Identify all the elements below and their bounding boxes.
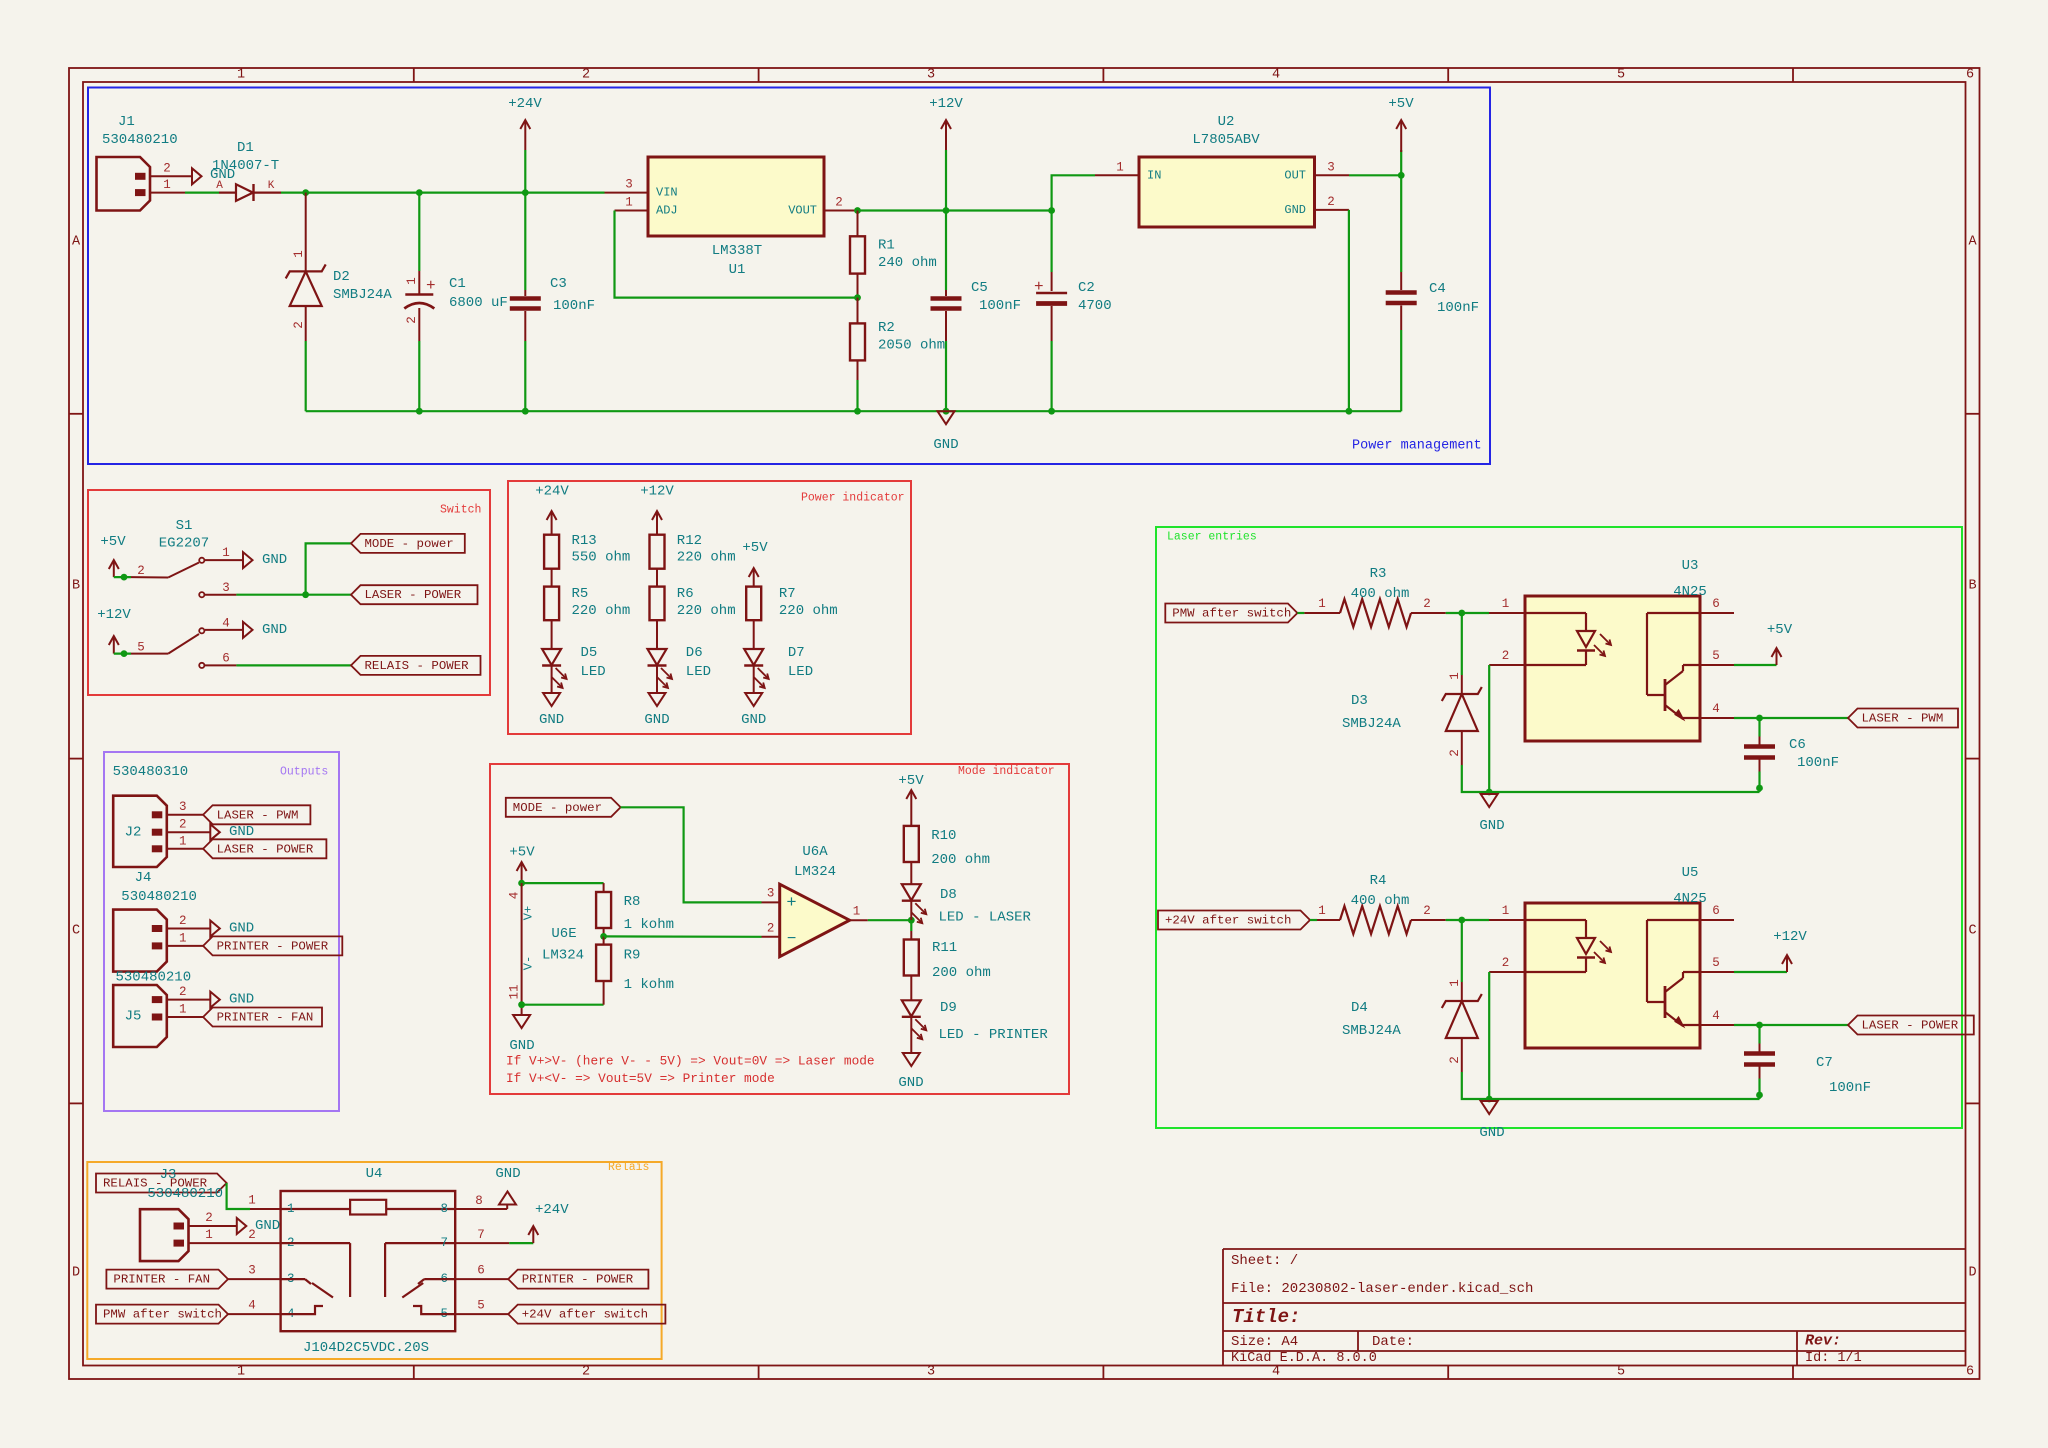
svg-text:R3: R3 [1370,566,1387,582]
svg-text:220 ohm: 220 ohm [677,603,736,619]
svg-text:4N25: 4N25 [1673,584,1707,600]
svg-text:1: 1 [1502,597,1510,611]
svg-text:U6E: U6E [551,926,576,942]
svg-text:SMBJ24A: SMBJ24A [1342,716,1401,732]
U4 pin 3 [228,1278,281,1280]
resistor R10 200 ohm [904,826,919,862]
hierarchical label PRINTER - POWER at U4 [508,1270,648,1289]
svg-text:4: 4 [1272,1365,1280,1380]
junction D8/R11 node [908,917,915,924]
svg-text:LED: LED [788,664,813,680]
capacitor C3 100nF [524,193,526,290]
svg-text:IN: IN [1147,168,1161,182]
svg-text:1 kohm: 1 kohm [624,977,674,993]
svg-text:PRINTER - POWER: PRINTER - POWER [217,939,329,953]
junction MODE/LASER [302,591,309,598]
svg-text:3: 3 [767,887,775,901]
svg-text:LASER - POWER: LASER - POWER [217,842,314,856]
svg-text:Outputs: Outputs [280,766,328,779]
GND label at J1 pin 2 [192,168,202,184]
GND label at U4 pin 8 [499,1192,516,1205]
J5 pin 1 wire [167,1016,203,1018]
svg-text:+12V: +12V [97,607,131,623]
svg-text:GND: GND [1479,818,1504,834]
connector J4 [113,910,167,972]
wire C7 to ground rail [1758,1079,1760,1100]
svg-text:8: 8 [475,1194,483,1208]
svg-text:7: 7 [440,1236,448,1250]
power symbol at R12 string [656,513,658,535]
U5 pin 4 [1700,1024,1734,1026]
junction at C6 top [1756,715,1763,722]
svg-text:6: 6 [1712,904,1720,918]
svg-text:L7805ABV: L7805ABV [1192,132,1260,148]
junction C7 at rail [1756,1092,1763,1099]
svg-text:S1: S1 [176,518,193,534]
junction at C2 / U2 input [1048,207,1055,214]
svg-text:2: 2 [1423,904,1431,918]
U2 pin 2 GND [1315,209,1349,211]
svg-text:1: 1 [1116,161,1124,175]
rail junction C3 [522,408,529,415]
hierarchical label PMW after switch input [96,1305,228,1324]
wire label to R4 [1310,919,1317,921]
capacitor C4 100nF [1400,175,1402,272]
resistor R8 1 kohm [603,883,605,892]
U4 pin 4 [228,1313,281,1315]
J2 pin 1 wire [167,848,203,850]
svg-text:R11: R11 [932,940,957,956]
laser entries section box [1156,527,1962,1128]
hierarchical label LASER - POWER [351,585,478,604]
connector J5 [113,985,167,1047]
svg-text:2: 2 [179,985,187,999]
svg-text:ADJ: ADJ [656,204,678,218]
S1 pole A lever [131,576,168,578]
outputs section box [104,752,339,1111]
junction at D4 top [1458,917,1465,924]
svg-text:J2: J2 [125,825,142,841]
junction at D3 top [1458,610,1465,617]
svg-text:U6A: U6A [802,844,828,860]
wire R9 bottom rail [522,1004,604,1006]
svg-text:SMBJ24A: SMBJ24A [1342,1023,1401,1039]
regulator U1 LM338T [648,157,824,236]
svg-text:PMW after switch: PMW after switch [1172,607,1291,621]
svg-text:200 ohm: 200 ohm [931,852,990,868]
svg-text:1: 1 [205,1228,213,1242]
U1 pin 3 VIN [605,192,649,194]
hierarchical label MODE - power [351,534,465,553]
power symbol GND at U6E [513,1015,530,1028]
svg-text:100nF: 100nF [1829,1080,1871,1096]
power symbol GND of power section [938,411,955,424]
svg-text:200 ohm: 200 ohm [932,965,991,981]
J3 pin 2 wire [189,1225,237,1227]
svg-text:Switch: Switch [440,504,481,517]
svg-text:4: 4 [508,892,522,900]
U4 pin 6 [455,1278,508,1280]
U2 pin 3 OUT [1315,174,1350,176]
svg-text:LASER - POWER: LASER - POWER [1862,1019,1959,1033]
power indicator section box [508,481,911,734]
svg-text:LED: LED [581,664,606,680]
svg-text:3: 3 [179,800,187,814]
svg-text:1: 1 [625,196,633,210]
svg-text:KiCad E.D.A. 8.0.0: KiCad E.D.A. 8.0.0 [1231,1351,1377,1366]
svg-text:5: 5 [137,641,145,655]
svg-text:3: 3 [248,1264,256,1278]
zener diode D4 SMBJ24A [1461,920,1463,982]
U3 pin 1 [1489,612,1525,614]
svg-text:220 ohm: 220 ohm [779,603,838,619]
power symbol GND below D9 [903,1053,920,1066]
svg-text:EG2207: EG2207 [159,536,209,552]
J1 pin 2 wire to GND [150,175,192,177]
svg-text:1: 1 [287,1202,295,1216]
hierarchical label PRINTER - FAN input [106,1270,228,1289]
wire C3 to ground rail [524,341,526,411]
U4 pin 8 [455,1208,507,1210]
wire U2 GND to ground rail [1348,210,1350,411]
svg-text:Rev:: Rev: [1805,1333,1841,1350]
power symbol GND of U5 channel [1481,1101,1498,1114]
svg-text:A: A [216,180,223,192]
svg-text:2: 2 [582,1365,590,1380]
svg-text:1: 1 [853,905,861,919]
svg-text:D9: D9 [940,1000,957,1016]
wire +12V to S1 common [114,652,131,654]
svg-text:3: 3 [222,581,230,595]
svg-text:2: 2 [292,321,306,329]
svg-text:220 ohm: 220 ohm [677,550,736,566]
U3 pin 5 [1700,664,1734,666]
svg-text:1: 1 [1448,979,1462,987]
U4 pin 1 [250,1208,281,1210]
ground rail wire [306,410,1402,412]
LED D5 [542,649,561,665]
svg-text:2: 2 [1448,749,1462,757]
S1 pole B lever [131,653,168,655]
svg-text:220 ohm: 220 ohm [572,603,631,619]
wire U1 ADJ to R1/R2 node [615,211,858,298]
svg-text:MODE - power: MODE - power [365,537,454,551]
svg-text:100nF: 100nF [1437,300,1479,316]
U5 pin 1 [1489,919,1525,921]
wire V- to GND [521,1005,523,1015]
svg-text:1: 1 [222,546,230,560]
svg-text:2: 2 [835,196,843,210]
svg-text:+24V: +24V [535,484,569,500]
wire D4 to ground rail [1462,1072,1760,1099]
svg-text:R8: R8 [624,894,641,910]
svg-text:File: 20230802-laser-ender.kic: File: 20230802-laser-ender.kicad_sch [1231,1281,1533,1297]
wire MODE label to op-amp + [621,807,762,902]
svg-text:GND: GND [262,622,287,638]
svg-text:GND: GND [898,1075,923,1091]
svg-text:1: 1 [248,1194,256,1208]
svg-text:Power indicator: Power indicator [801,492,905,505]
svg-text:4N25: 4N25 [1673,891,1707,907]
svg-text:J4: J4 [135,870,152,886]
svg-text:100nF: 100nF [553,298,595,314]
power symbol +12V [945,150,947,211]
svg-text:GND: GND [229,992,254,1008]
svg-text:2: 2 [1502,956,1510,970]
connector J3 [140,1209,189,1261]
svg-text:240 ohm: 240 ohm [878,255,937,271]
svg-text:7: 7 [477,1228,485,1242]
svg-text:R4: R4 [1370,873,1387,889]
svg-text:3: 3 [927,68,935,83]
svg-text:100nF: 100nF [979,298,1021,314]
wire U5 pin2 to ground rail [1488,972,1490,1099]
svg-text:2: 2 [405,316,419,324]
zener diode D3 SMBJ24A [1461,613,1463,675]
GND label at J5 pin 2 [210,992,220,1008]
svg-text:R10: R10 [931,828,956,844]
capacitor C1 6800uF [418,193,420,271]
regulator U2 L7805ABV [1139,157,1315,227]
relay pole B [384,1243,386,1297]
LED D7 [744,649,763,665]
svg-text:5: 5 [1617,68,1625,83]
svg-text:D: D [72,1266,80,1281]
svg-text:GND: GND [229,921,254,937]
svg-text:3: 3 [625,178,633,192]
svg-text:2: 2 [767,922,775,936]
power management section box [88,88,1490,465]
svg-text:6: 6 [1966,68,1974,83]
svg-text:2: 2 [163,162,171,176]
junction at C7 top [1756,1022,1763,1029]
svg-text:1: 1 [237,68,245,83]
svg-text:D6: D6 [686,645,703,661]
svg-text:LED - LASER: LED - LASER [939,910,1032,926]
svg-text:D8: D8 [940,887,957,903]
svg-text:R2: R2 [878,320,895,336]
hierarchical label +24V after switch [1158,911,1310,930]
svg-text:Sheet: /: Sheet: / [1231,1253,1298,1269]
svg-text:2: 2 [1327,195,1335,209]
S1 pin 1 contact [199,558,204,563]
svg-text:R7: R7 [779,586,796,602]
op-amp U6A LM324 [780,884,850,957]
rail junction C1 [416,408,423,415]
zener diode D2 SMBJ24A [305,193,307,272]
svg-text:+: + [1034,278,1044,296]
wire C2 node to U2 IN [1052,175,1095,210]
svg-text:VIN: VIN [656,186,678,200]
svg-text:4: 4 [222,617,230,631]
GND label at J2 pin 2 [210,824,220,840]
svg-text:D: D [1968,1266,1976,1281]
power symbol GND of U3 channel [1481,794,1498,807]
svg-text:530480210: 530480210 [116,970,192,986]
svg-text:+5V: +5V [898,773,924,789]
junction U2 GND at rail [1346,408,1353,415]
svg-text:MODE - power: MODE - power [513,801,602,815]
svg-text:530480210: 530480210 [121,889,197,905]
svg-text:LM324: LM324 [794,864,836,880]
svg-text:C4: C4 [1429,281,1446,297]
junction at ADJ node [854,294,861,301]
resistor R3 400 ohm [1304,612,1340,614]
svg-text:LED - PRINTER: LED - PRINTER [939,1027,1049,1043]
svg-text:3: 3 [1327,161,1335,175]
relay coil [281,1208,351,1210]
relay pole A [349,1243,351,1297]
svg-text:LASER - PWM: LASER - PWM [217,808,299,822]
svg-text:U4: U4 [366,1166,383,1182]
svg-text:OUT: OUT [1284,168,1306,182]
GND label at S1 pin 4 [243,622,253,638]
wire J1 pin1 to D1 [150,192,185,194]
power symbol at R7 string [753,570,755,587]
J2 pin 3 wire [167,814,203,816]
svg-text:+5V: +5V [1767,622,1793,638]
svg-text:R1: R1 [878,238,895,254]
hierarchical label LASER - PWM at J2 [203,805,310,824]
wire S1 pin3 to labels [236,594,351,596]
S1 pin 4 contact [199,628,204,633]
power symbol GND below D6 [649,693,666,706]
svg-text:4: 4 [1712,702,1720,716]
svg-text:1: 1 [163,178,171,192]
svg-text:PMW after switch: PMW after switch [103,1308,222,1322]
svg-text:2050 ohm: 2050 ohm [878,338,945,354]
resistor R9 1 kohm [603,936,605,944]
junction +5V / V+ [518,880,525,887]
svg-text:C: C [1968,924,1976,939]
svg-text:D7: D7 [788,645,805,661]
svg-text:PRINTER - FAN: PRINTER - FAN [217,1011,314,1025]
wire C6 to ground rail [1758,772,1760,793]
U4 pin 5 [455,1313,508,1315]
wire D2 to ground rail [305,341,307,411]
LED D6 [648,649,667,665]
wire to MODE label [306,543,351,594]
resistor R5 [544,587,559,621]
svg-text:R9: R9 [624,948,641,964]
svg-text:GND: GND [741,712,766,728]
wire pin4 to label LASER - PWM [1734,717,1848,719]
wire C1 to ground rail [418,341,420,411]
svg-text:+5V: +5V [1388,96,1414,112]
hierarchical label PRINTER - POWER at J4 [203,936,342,955]
wire U2 OUT to +5V node [1349,174,1401,176]
svg-text:4700: 4700 [1078,298,1112,314]
svg-text:1N4007-T: 1N4007-T [212,158,279,174]
svg-text:Size: A4: Size: A4 [1231,1334,1298,1350]
svg-text:4: 4 [1712,1009,1720,1023]
mode indicator section box [490,764,1069,1094]
hierarchical label +24V after switch at U4 [508,1305,665,1324]
hierarchical label RELAIS - POWER [351,656,481,675]
svg-text:+24V: +24V [508,96,542,112]
svg-text:100nF: 100nF [1797,755,1839,771]
svg-text:A: A [72,235,81,250]
svg-text:4: 4 [1272,68,1280,83]
svg-text:U1: U1 [729,262,746,278]
svg-text:3: 3 [927,1365,935,1380]
junction at +5V / C4 [1398,172,1405,179]
U5 pin 2 [1489,971,1525,973]
svg-text:LM338T: LM338T [712,243,762,259]
svg-text:Power management: Power management [1352,439,1482,454]
wire label to R3 [1297,612,1304,614]
svg-text:D1: D1 [237,140,254,156]
LED D8 LED - LASER [902,884,921,900]
svg-text:Relais: Relais [608,1161,649,1174]
svg-text:LASER - POWER: LASER - POWER [365,588,462,602]
svg-text:+5V: +5V [742,540,768,556]
svg-text:2: 2 [179,818,187,832]
svg-text:400 ohm: 400 ohm [1351,586,1410,602]
svg-text:Laser entries: Laser entries [1167,531,1257,544]
op-amp U6E power pins [521,883,523,1005]
svg-text:1: 1 [1318,904,1326,918]
optocoupler U3 4N25 [1525,596,1700,741]
svg-text:GND: GND [933,437,958,453]
junction V- node [518,1001,525,1008]
svg-text:C1: C1 [449,276,466,292]
svg-text:GND: GND [644,712,669,728]
svg-text:530480210: 530480210 [102,132,178,148]
hierarchical label PMW after switch [1165,604,1297,623]
junction at +12V / C5 [943,207,950,214]
U6A output pin [850,919,868,921]
U3 pin 2 [1489,664,1525,666]
svg-text:C7: C7 [1816,1055,1833,1071]
svg-text:+12V: +12V [929,96,963,112]
svg-text:If V+>V- (here V- - 5V) => Vou: If V+>V- (here V- - 5V) => Vout=0V => La… [506,1054,875,1069]
svg-text:D4: D4 [1351,1000,1368,1016]
svg-text:530480210: 530480210 [147,1186,223,1202]
wire U1 VOUT rail [856,209,1052,211]
wire D1 cathode to VIN of U1 [281,192,605,194]
power symbol +5V [1400,150,1402,175]
wire R8/R9 node to op-amp - [604,935,762,938]
rail junction C5/GND [943,408,950,415]
power symbol GND below D7 [745,693,762,706]
svg-text:V-: V- [522,956,536,970]
svg-text:+: + [426,277,436,295]
svg-text:2: 2 [137,564,145,578]
svg-text:6: 6 [477,1264,485,1278]
svg-text:D2: D2 [333,269,350,285]
svg-text:5: 5 [1617,1365,1625,1380]
S1 pin 3 contact [199,592,204,597]
svg-text:6: 6 [1966,1365,1974,1380]
svg-text:1: 1 [1318,597,1326,611]
junction pin2 wire at rail [1486,789,1493,796]
svg-text:8: 8 [440,1202,448,1216]
svg-text:−: − [787,930,797,948]
U5 pin 6 [1700,919,1734,921]
junction R8/R9 node [600,933,607,940]
U6A + input pin [762,901,780,903]
J4 pin 1 wire [167,945,203,947]
GND label at J3 pin 2 [237,1218,247,1234]
wire +5V to S1 common [114,576,131,578]
svg-text:If V+<V- => Vout=5V => Printer: If V+<V- => Vout=5V => Printer mode [506,1071,775,1086]
svg-text:GND: GND [1479,1125,1504,1141]
svg-text:1: 1 [405,277,419,285]
svg-text:GND: GND [495,1166,520,1182]
svg-text:GND: GND [262,552,287,568]
svg-text:LASER - PWM: LASER - PWM [1862,712,1944,726]
